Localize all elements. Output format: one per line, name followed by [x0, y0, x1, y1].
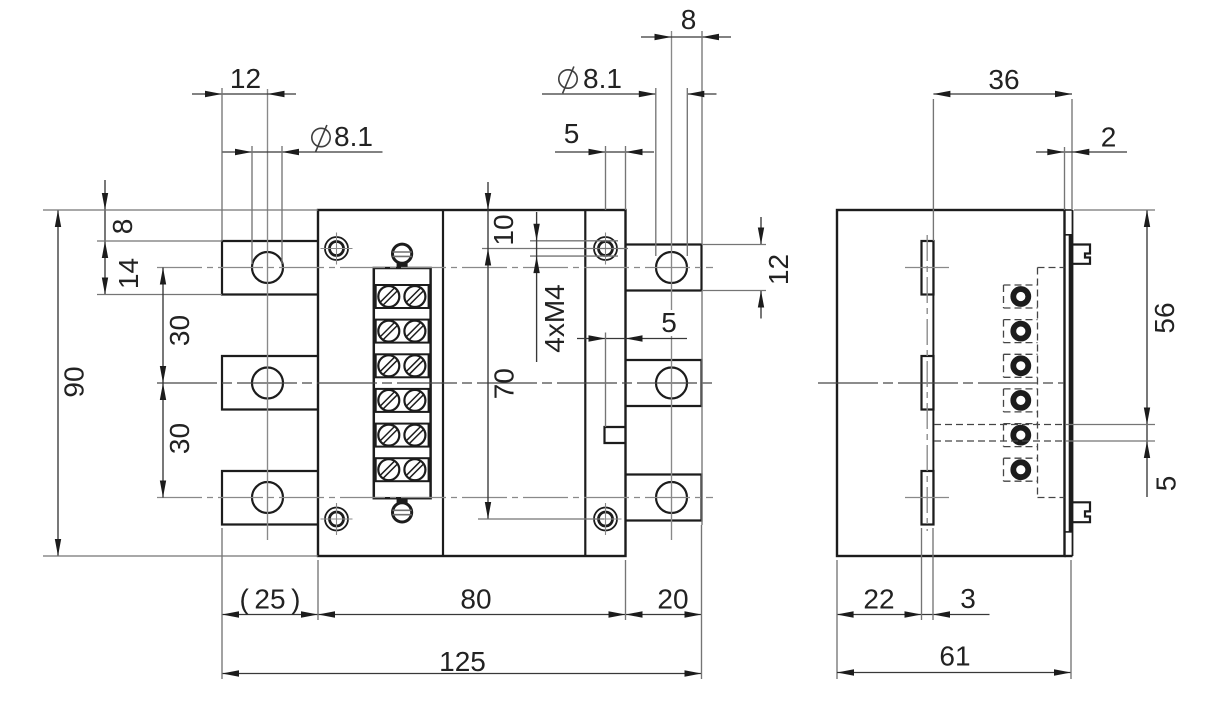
svg-text:14: 14 [113, 258, 144, 289]
svg-text:8: 8 [107, 219, 138, 235]
svg-text:61: 61 [939, 641, 970, 672]
svg-text:8.1: 8.1 [334, 121, 373, 152]
svg-text:8.1: 8.1 [583, 63, 622, 94]
svg-text:22: 22 [863, 584, 894, 615]
svg-text:( 25 ): ( 25 ) [239, 584, 300, 615]
svg-text:12: 12 [230, 63, 261, 94]
svg-text:5: 5 [661, 307, 677, 338]
svg-text:3: 3 [960, 583, 976, 614]
svg-text:90: 90 [59, 366, 90, 397]
svg-text:80: 80 [460, 584, 491, 615]
svg-text:5: 5 [564, 118, 580, 149]
svg-text:2: 2 [1101, 122, 1117, 153]
svg-text:70: 70 [489, 368, 520, 399]
svg-text:8: 8 [681, 4, 697, 35]
svg-text:12: 12 [763, 254, 794, 285]
svg-text:4xM4: 4xM4 [539, 284, 570, 352]
svg-text:36: 36 [988, 64, 1019, 95]
svg-text:10: 10 [488, 214, 519, 245]
svg-text:20: 20 [657, 584, 688, 615]
svg-text:5: 5 [1151, 476, 1182, 492]
svg-text:30: 30 [164, 315, 195, 346]
svg-text:30: 30 [164, 423, 195, 454]
svg-text:125: 125 [439, 646, 486, 677]
svg-text:56: 56 [1149, 302, 1180, 333]
